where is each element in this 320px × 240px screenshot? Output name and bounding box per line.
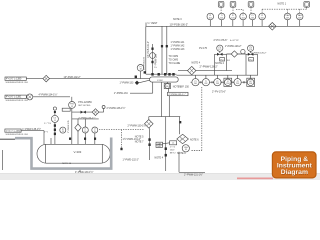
svg-text:10″-PGB-101-2″: 10″-PGB-101-2″ — [147, 41, 150, 58]
svg-text:LAL: LAL — [158, 145, 161, 148]
svg-text:1″-PWW-138-1½″: 1″-PWW-138-1½″ — [22, 127, 41, 131]
svg-text:NOTE 4: NOTE 4 — [192, 61, 201, 64]
svg-text:SET 2: SET 2 — [170, 152, 177, 154]
svg-text:15: 15 — [94, 131, 96, 133]
svg-text:SODIUM HYDROX. INJ.: SODIUM HYDROX. INJ. — [6, 82, 29, 84]
svg-text:2″-PV-176-6″: 2″-PV-176-6″ — [214, 39, 228, 42]
svg-text:201: 201 — [194, 83, 197, 85]
svg-text:10″-PGB-102-2″: 10″-PGB-102-2″ — [64, 76, 81, 79]
svg-text:FO: FO — [227, 60, 230, 62]
svg-text:103: 103 — [231, 17, 234, 19]
svg-text:NOTE 4: NOTE 4 — [155, 156, 164, 159]
svg-text:106: 106 — [261, 17, 264, 19]
svg-text:203: 203 — [216, 83, 219, 85]
svg-text:LAH: LAH — [157, 142, 161, 145]
svg-text:1½″-PWD-131-2″: 1½″-PWD-131-2″ — [123, 137, 141, 141]
svg-text:4″-PWD-130-1½″: 4″-PWD-130-1½″ — [75, 170, 93, 174]
svg-text:2″-PWW-126-2″: 2″-PWW-126-2″ — [200, 64, 218, 68]
svg-text:SET 50 PSIG: SET 50 PSIG — [78, 105, 90, 107]
svg-text:12: 12 — [71, 106, 73, 108]
svg-text:NOTE 9: NOTE 9 — [177, 152, 186, 155]
svg-text:SODIUM HYDROX. INJ.: SODIUM HYDROX. INJ. — [6, 100, 29, 102]
svg-text:204: 204 — [226, 83, 229, 85]
svg-text:PV-175: PV-175 — [199, 47, 208, 50]
svg-text:1″-PWW-129-2″: 1″-PWW-129-2″ — [225, 45, 242, 48]
svg-text:175: 175 — [218, 49, 221, 51]
svg-text:1″-PWD-132-2″: 1″-PWD-132-2″ — [123, 159, 139, 162]
svg-text:2″-PV-175-6″: 2″-PV-175-6″ — [212, 91, 226, 94]
svg-text:18: 18 — [139, 69, 141, 71]
svg-text:11: 11 — [54, 120, 56, 122]
svg-text:NOTE 7: NOTE 7 — [135, 141, 144, 144]
svg-text:1″-PWW-143: 1″-PWW-143 — [171, 48, 185, 51]
svg-text:205: 205 — [236, 83, 239, 85]
svg-text:108: 108 — [298, 17, 301, 19]
svg-text:2″-PWW-131-1½″: 2″-PWW-131-1½″ — [184, 172, 203, 176]
svg-text:NOTE 6: NOTE 6 — [190, 139, 199, 142]
svg-text:W.P. 150: W.P. 150 — [180, 85, 190, 88]
svg-text:176: 176 — [249, 49, 252, 51]
svg-text:2″-PWW-136-1½″: 2″-PWW-136-1½″ — [107, 106, 126, 110]
svg-text:NOTE 1: NOTE 1 — [278, 3, 287, 6]
svg-text:13: 13 — [62, 131, 64, 133]
svg-text:14: 14 — [84, 131, 86, 133]
svg-text:202: 202 — [204, 83, 207, 85]
svg-text:4″-PWW-134-1½″: 4″-PWW-134-1½″ — [39, 92, 58, 96]
svg-text:102: 102 — [220, 17, 223, 19]
svg-text:Diagram: Diagram — [281, 169, 308, 176]
svg-text:105: 105 — [251, 17, 254, 19]
svg-text:4×3 TYP: 4×3 TYP — [230, 39, 239, 42]
svg-text:16: 16 — [185, 149, 187, 151]
svg-text:10″-PGB-100: 10″-PGB-100 — [143, 56, 145, 70]
svg-text:2″-PWW-125: 2″-PWW-125 — [154, 54, 157, 68]
svg-text:V-303: V-303 — [74, 150, 82, 154]
svg-text:TO FLARE: TO FLARE — [169, 62, 181, 65]
svg-text:NOTE 10: NOTE 10 — [62, 163, 72, 165]
svg-text:2″-PWW-135: 2″-PWW-135 — [68, 120, 70, 133]
svg-text:2″-PWW-130-1½″: 2″-PWW-130-1½″ — [128, 124, 147, 128]
svg-text:SODIUM HYDROX. INJ.: SODIUM HYDROX. INJ. — [6, 134, 29, 136]
svg-text:PSV-123456: PSV-123456 — [78, 101, 92, 104]
svg-text:206: 206 — [249, 83, 252, 85]
svg-text:NOTE 3: NOTE 3 — [173, 18, 182, 21]
svg-text:10″-PGB-100-2″: 10″-PGB-100-2″ — [170, 22, 189, 26]
svg-text:¼″ VENT: ¼″ VENT — [148, 22, 158, 25]
svg-text:1″ V: 1″ V — [44, 132, 48, 134]
svg-text:107: 107 — [286, 17, 289, 19]
svg-text:1″-PWW-133: 1″-PWW-133 — [120, 82, 134, 85]
svg-text:V-302: V-302 — [157, 80, 163, 82]
svg-text:101: 101 — [209, 17, 212, 19]
svg-text:FO: FO — [250, 59, 253, 61]
svg-text:2″-PWW-128-2″: 2″-PWW-128-2″ — [251, 53, 267, 55]
svg-text:104: 104 — [242, 17, 245, 19]
svg-text:1″-PWW-134: 1″-PWW-134 — [114, 92, 128, 95]
